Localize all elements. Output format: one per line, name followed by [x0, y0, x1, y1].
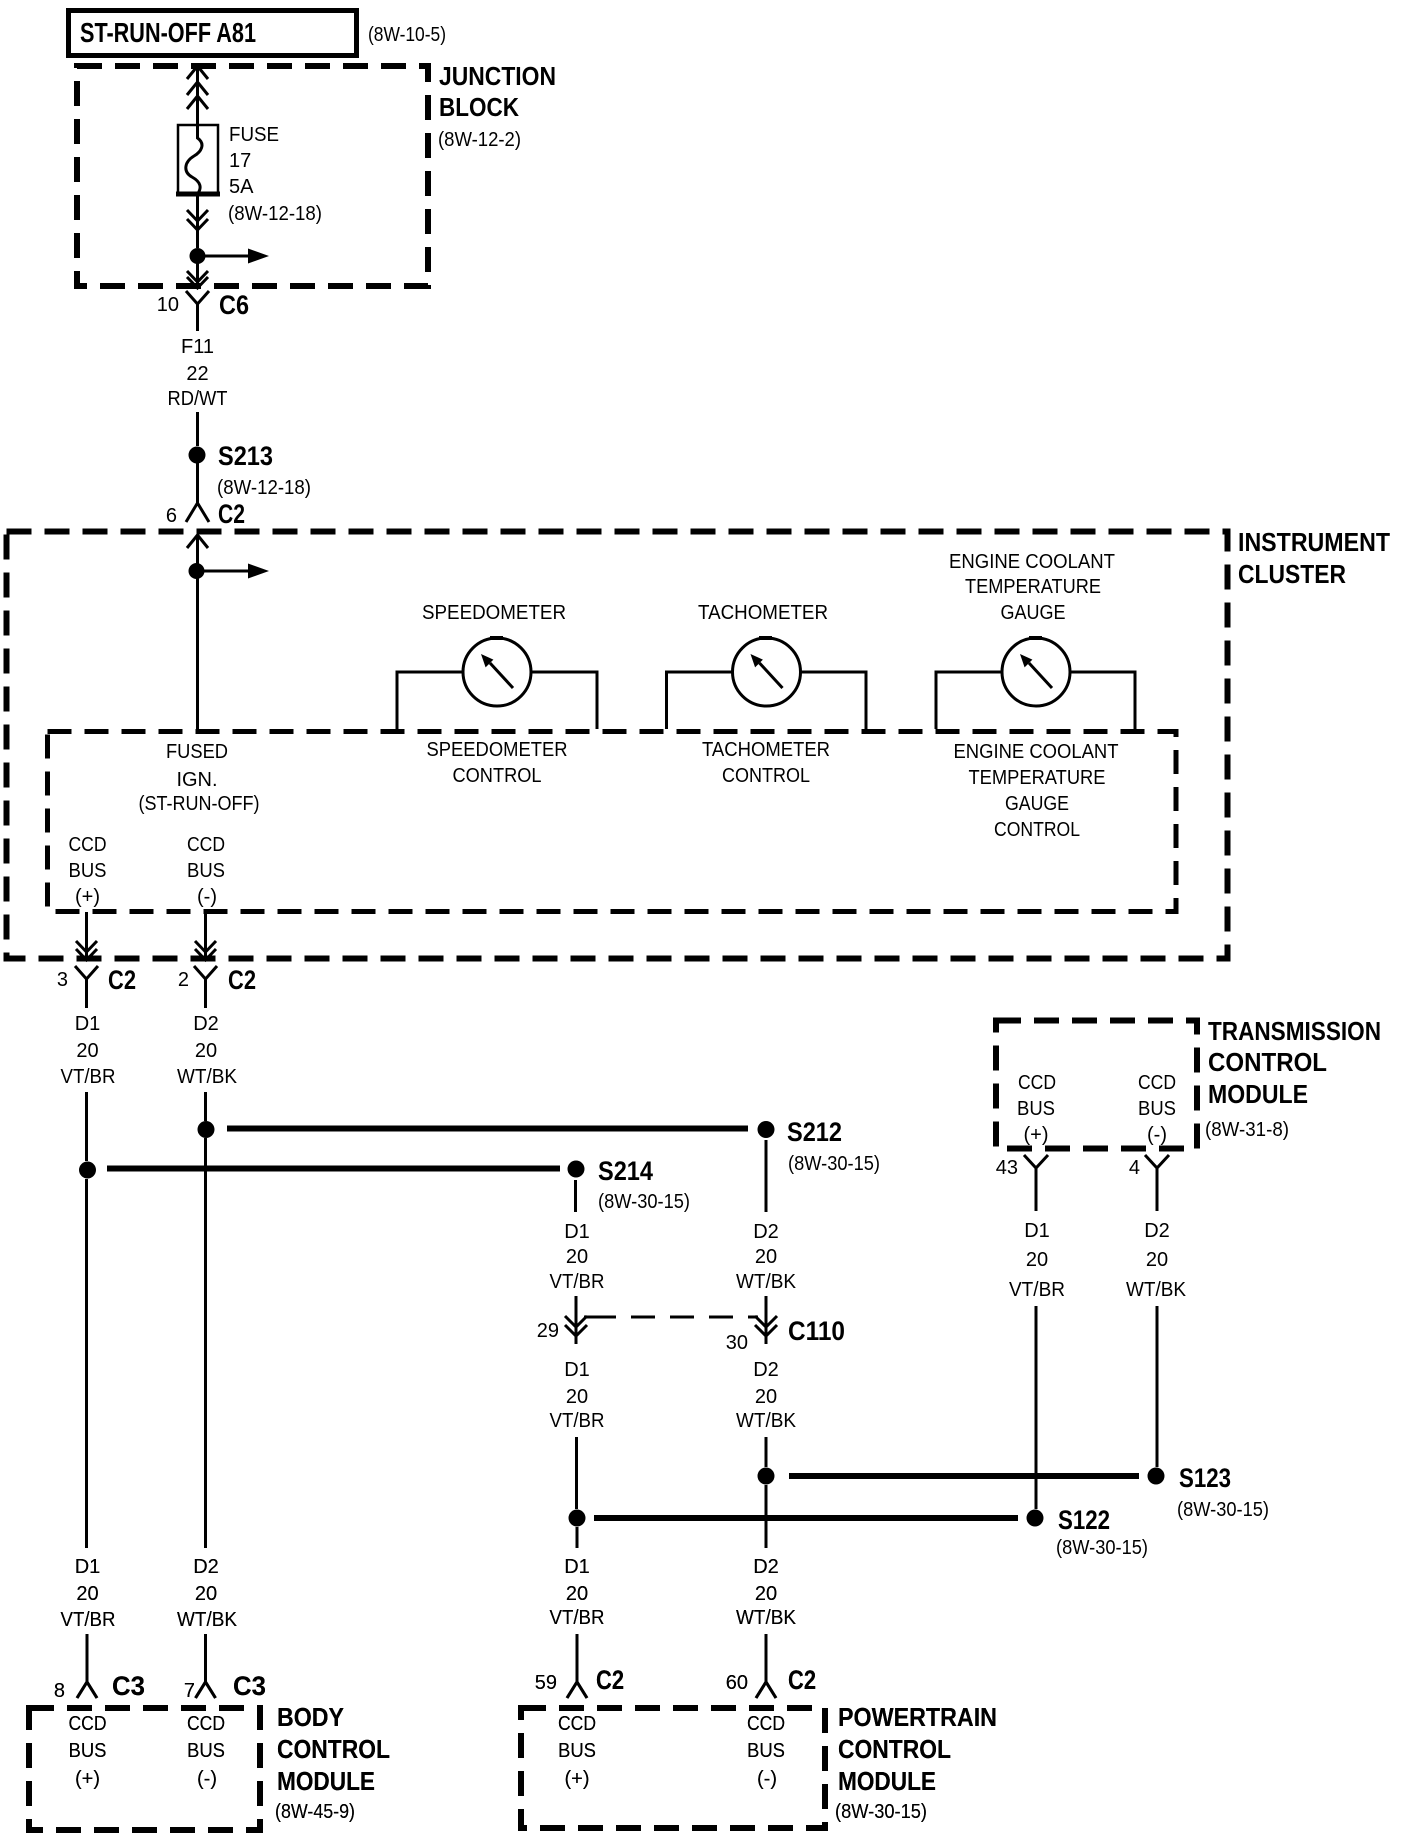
label CCD BUS (-) pcm: [747, 1713, 785, 1790]
svg-text:FUSE: FUSE: [229, 124, 279, 146]
svg-text:6: 6: [166, 505, 177, 527]
powertrain control module box: [521, 1702, 997, 1828]
svg-text:WT/BK: WT/BK: [736, 1271, 797, 1293]
svg-text:D2: D2: [753, 1556, 779, 1578]
svg-text:D2: D2: [193, 1013, 219, 1035]
instrument cluster box: [7, 527, 1391, 959]
svg-text:20: 20: [755, 1246, 777, 1268]
wire ccd- exit with down arrows: [195, 912, 216, 960]
svg-text:VT/BR: VT/BR: [61, 1066, 116, 1088]
svg-text:20: 20: [755, 1386, 777, 1408]
svg-text:BUS: BUS: [187, 860, 225, 882]
splice S214 branch line: [79, 1156, 690, 1213]
junction block box: [77, 61, 556, 286]
svg-text:C2: C2: [228, 965, 256, 995]
splice S213: [189, 441, 312, 499]
wire D2 20 WT/BK from pin 2: [177, 1013, 238, 1121]
svg-text:2: 2: [178, 969, 189, 991]
svg-text:C2: C2: [218, 499, 245, 529]
wire: feed from ST-RUN-OFF into junction block with up arrow: [187, 66, 208, 125]
svg-text:GAUGE: GAUGE: [1001, 602, 1066, 624]
label CCD BUS (-) tcm: [1138, 1072, 1176, 1146]
svg-text:CONTROL: CONTROL: [1208, 1047, 1327, 1077]
svg-text:(8W-45-9): (8W-45-9): [275, 1801, 355, 1823]
svg-text:FUSED: FUSED: [166, 741, 228, 763]
svg-text:(8W-12-2): (8W-12-2): [438, 129, 521, 151]
svg-text:CONTROL: CONTROL: [994, 819, 1080, 841]
svg-text:CCD: CCD: [747, 1713, 785, 1735]
connector C2 pin 60: [726, 1665, 816, 1698]
svg-text:C110: C110: [788, 1316, 845, 1346]
svg-text:TEMPERATURE: TEMPERATURE: [969, 767, 1106, 789]
connector C3 pin 7: [184, 1671, 266, 1702]
svg-text:CCD: CCD: [187, 1713, 225, 1735]
wire below pin2 down to body control module: [204, 1138, 207, 1548]
body control module box: [29, 1702, 390, 1830]
splice S212 branch line: [198, 1117, 881, 1175]
svg-text:CCD: CCD: [558, 1713, 596, 1735]
label CCD BUS (-) pcm: [747, 1713, 785, 1790]
label CCD BUS (+) bcm: [69, 1713, 107, 1790]
svg-text:20: 20: [566, 1583, 588, 1605]
svg-text:59: 59: [535, 1672, 557, 1694]
connector C2 pin 6 at cluster entry: [166, 463, 245, 529]
wire below pin3 down to body control module: [85, 1179, 88, 1548]
svg-text:8: 8: [54, 1680, 65, 1702]
svg-text:WT/BK: WT/BK: [1126, 1279, 1187, 1301]
svg-text:BUS: BUS: [69, 860, 107, 882]
wire D1 20 VT/BR into pcm pin 59: [550, 1527, 605, 1682]
label CCD BUS (-) bcm: [187, 1713, 225, 1790]
svg-text:BUS: BUS: [187, 1740, 225, 1762]
svg-text:JUNCTION: JUNCTION: [439, 61, 556, 91]
svg-text:20: 20: [566, 1386, 588, 1408]
label CCD BUS (-) cluster: [187, 834, 225, 908]
wire D1 20 VT/BR below C110: [550, 1359, 605, 1509]
svg-text:C3: C3: [233, 1671, 266, 1701]
label CCD BUS (+) tcm: [1017, 1072, 1056, 1146]
svg-text:IGN.: IGN.: [176, 769, 217, 791]
svg-text:S214: S214: [598, 1156, 653, 1186]
svg-text:(+): (+): [1024, 1124, 1049, 1146]
svg-text:5A: 5A: [229, 176, 254, 198]
label CCD BUS (+) pcm: [558, 1713, 596, 1790]
svg-text:CONTROL: CONTROL: [722, 765, 810, 787]
svg-text:30: 30: [726, 1332, 748, 1354]
svg-text:D2: D2: [753, 1221, 779, 1243]
svg-text:20: 20: [1146, 1249, 1168, 1271]
svg-text:MODULE: MODULE: [277, 1766, 375, 1796]
svg-text:CONTROL: CONTROL: [453, 765, 542, 787]
connector C2 pin 60: [726, 1665, 816, 1698]
svg-text:TACHOMETER: TACHOMETER: [698, 602, 828, 624]
wire D1 20 VT/BR into pcm pin 59: [550, 1527, 605, 1682]
svg-text:20: 20: [76, 1583, 98, 1605]
svg-text:BLOCK: BLOCK: [439, 92, 519, 122]
svg-text:INSTRUMENT: INSTRUMENT: [1238, 527, 1390, 557]
wire D1 20 VT/BR into bcm pin 8: [61, 1556, 116, 1682]
connector C110 pin 29: [537, 1316, 587, 1342]
svg-text:(ST-RUN-OFF): (ST-RUN-OFF): [139, 793, 260, 815]
connector C3 pin 8: [54, 1671, 145, 1702]
svg-text:20: 20: [755, 1583, 777, 1605]
svg-text:BUS: BUS: [747, 1740, 785, 1762]
svg-text:C2: C2: [108, 965, 136, 995]
svg-text:D2: D2: [193, 1556, 219, 1578]
connector arrow into cluster at pin 6: [187, 535, 208, 548]
svg-text:CCD: CCD: [1138, 1072, 1176, 1094]
transmission control module box: [996, 1016, 1381, 1149]
connector C3 pin 7: [184, 1671, 266, 1702]
svg-text:WT/BK: WT/BK: [736, 1410, 797, 1432]
svg-text:VT/BR: VT/BR: [1009, 1279, 1065, 1301]
label CCD BUS (+) cluster: [69, 834, 107, 908]
connector C2 pin 59: [535, 1665, 624, 1698]
wire D2 20 WT/BK below C110: [736, 1359, 797, 1467]
svg-text:ENGINE COOLANT: ENGINE COOLANT: [954, 741, 1119, 763]
label CCD BUS (+) pcm: [558, 1713, 596, 1790]
splice S123 branch line: [758, 1463, 1270, 1521]
svg-text:60: 60: [726, 1672, 748, 1694]
svg-text:(8W-10-5): (8W-10-5): [368, 24, 446, 46]
connector pin 4: [1129, 1155, 1169, 1211]
svg-text:BUS: BUS: [558, 1740, 596, 1762]
svg-text:C6: C6: [219, 290, 249, 320]
wire D1 20 VT/BR into bcm pin 8: [61, 1556, 116, 1682]
svg-text:SPEEDOMETER: SPEEDOMETER: [422, 602, 566, 624]
svg-text:S212: S212: [787, 1117, 842, 1147]
svg-text:BUS: BUS: [1017, 1098, 1055, 1120]
connector C110 pin 30: [726, 1316, 845, 1354]
svg-text:F11: F11: [181, 336, 214, 358]
svg-text:BUS: BUS: [69, 1740, 107, 1762]
engine coolant temperature gauge: [936, 551, 1135, 841]
svg-text:ENGINE COOLANT: ENGINE COOLANT: [949, 551, 1115, 573]
svg-text:CCD: CCD: [69, 834, 107, 856]
label FUSED IGN. (ST-RUN-OFF): [139, 741, 260, 815]
svg-text:VT/BR: VT/BR: [550, 1271, 605, 1293]
svg-text:7: 7: [184, 1680, 195, 1702]
svg-text:3: 3: [57, 969, 68, 991]
label CCD BUS (+) bcm: [69, 1713, 107, 1790]
fuse 17 5A: [176, 124, 322, 225]
connector C6 pin 10: [157, 290, 249, 331]
svg-text:22: 22: [186, 363, 208, 385]
power source box ST-RUN-OFF A81: [69, 11, 357, 56]
svg-text:D1: D1: [75, 1013, 101, 1035]
svg-text:WT/BK: WT/BK: [177, 1066, 238, 1088]
node: fused ignition splice with branch arrow: [189, 535, 270, 731]
svg-text:(8W-30-15): (8W-30-15): [1177, 1499, 1269, 1521]
svg-text:S122: S122: [1058, 1505, 1110, 1535]
speedometer gauge: [397, 602, 597, 787]
splice S122 branch line: [569, 1505, 1149, 1559]
connector C2 pin 59: [535, 1665, 624, 1698]
svg-text:(8W-30-15): (8W-30-15): [1056, 1537, 1148, 1559]
svg-text:CCD: CCD: [187, 834, 225, 856]
svg-text:VT/BR: VT/BR: [550, 1410, 605, 1432]
svg-text:(8W-31-8): (8W-31-8): [1205, 1119, 1289, 1141]
svg-text:17: 17: [229, 150, 251, 172]
svg-text:C2: C2: [788, 1665, 816, 1695]
svg-text:CONTROL: CONTROL: [838, 1734, 951, 1764]
svg-text:D1: D1: [564, 1359, 590, 1381]
svg-text:C3: C3: [112, 1671, 145, 1701]
svg-text:D1: D1: [75, 1556, 101, 1578]
body control module box: [29, 1702, 390, 1830]
wire D2 20 WT/BK into pcm pin 60: [736, 1485, 797, 1682]
svg-text:20: 20: [195, 1583, 217, 1605]
svg-text:20: 20: [195, 1040, 217, 1062]
svg-text:10: 10: [157, 294, 179, 316]
svg-text:(8W-30-15): (8W-30-15): [835, 1801, 927, 1823]
svg-text:20: 20: [566, 1246, 588, 1268]
svg-text:CLUSTER: CLUSTER: [1238, 559, 1346, 589]
dashed link of connector C110: [584, 1316, 758, 1319]
svg-text:(-): (-): [197, 1768, 217, 1790]
wire D2 20 WT/BK into bcm pin 7: [177, 1556, 238, 1682]
svg-text:(8W-12-18): (8W-12-18): [217, 477, 311, 499]
wire D2 20 WT/BK into pcm pin 60: [736, 1485, 797, 1682]
label CCD BUS (-) bcm: [187, 1713, 225, 1790]
svg-text:WT/BK: WT/BK: [177, 1609, 238, 1631]
wire below fuse with down chevrons: [187, 194, 208, 248]
tachometer gauge: [667, 602, 867, 787]
svg-text:VT/BR: VT/BR: [550, 1607, 605, 1629]
svg-text:D1: D1: [564, 1221, 590, 1243]
svg-text:RD/WT: RD/WT: [168, 388, 228, 410]
connector C2 pin 2: [178, 965, 256, 1008]
svg-text:GAUGE: GAUGE: [1005, 793, 1069, 815]
wire F11 22 RD/WT: [168, 336, 228, 446]
svg-text:C2: C2: [596, 1665, 624, 1695]
svg-text:(8W-30-15): (8W-30-15): [788, 1153, 880, 1175]
svg-text:WT/BK: WT/BK: [736, 1607, 797, 1629]
svg-text:SPEEDOMETER: SPEEDOMETER: [427, 739, 568, 761]
svg-text:BUS: BUS: [1138, 1098, 1176, 1120]
svg-text:D1: D1: [1024, 1220, 1050, 1242]
connector C3 pin 8: [54, 1671, 145, 1702]
svg-text:(8W-12-18): (8W-12-18): [228, 203, 322, 225]
wire ccd+ exit with down arrows: [76, 912, 97, 960]
svg-text:MODULE: MODULE: [838, 1766, 936, 1796]
svg-text:4: 4: [1129, 1157, 1140, 1179]
svg-text:(+): (+): [75, 886, 100, 908]
svg-text:(+): (+): [75, 1768, 100, 1790]
connector pin 43: [996, 1155, 1048, 1211]
wire D1 20 VT/BR from tcm: [1009, 1220, 1065, 1509]
svg-text:VT/BR: VT/BR: [61, 1609, 116, 1631]
svg-text:CCD: CCD: [69, 1713, 107, 1735]
svg-text:CONTROL: CONTROL: [277, 1734, 390, 1764]
node: splice in junction block with branch arrow: [190, 248, 270, 264]
svg-text:20: 20: [76, 1040, 98, 1062]
svg-text:ST-RUN-OFF A81: ST-RUN-OFF A81: [80, 17, 256, 48]
svg-text:MODULE: MODULE: [1208, 1079, 1308, 1109]
cluster internal control dashed box: [48, 732, 1177, 912]
svg-text:S213: S213: [218, 441, 273, 471]
svg-text:29: 29: [537, 1320, 559, 1342]
powertrain control module box: [521, 1702, 997, 1828]
svg-text:(8W-30-15): (8W-30-15): [598, 1191, 690, 1213]
svg-text:D2: D2: [1144, 1220, 1170, 1242]
svg-text:TACHOMETER: TACHOMETER: [702, 739, 830, 761]
svg-text:(+): (+): [565, 1768, 590, 1790]
svg-text:(-): (-): [757, 1768, 777, 1790]
svg-text:BODY: BODY: [277, 1702, 344, 1732]
wire D1 20 VT/BR from S214: [550, 1180, 605, 1344]
svg-text:43: 43: [996, 1157, 1018, 1179]
wire: junction block exit with down arrow: [187, 256, 208, 288]
svg-text:TEMPERATURE: TEMPERATURE: [965, 576, 1101, 598]
svg-text:(-): (-): [1147, 1124, 1167, 1146]
svg-text:D1: D1: [564, 1556, 590, 1578]
svg-text:POWERTRAIN: POWERTRAIN: [838, 1702, 997, 1732]
wire D1 20 VT/BR from pin 3: [61, 1013, 116, 1161]
svg-text:TRANSMISSION: TRANSMISSION: [1208, 1016, 1381, 1046]
svg-text:CCD: CCD: [1018, 1072, 1056, 1094]
svg-text:D2: D2: [753, 1359, 779, 1381]
svg-text:20: 20: [1026, 1249, 1048, 1271]
svg-text:(-): (-): [197, 886, 217, 908]
wire D2 20 WT/BK from S212: [736, 1140, 797, 1344]
wire D2 20 WT/BK into bcm pin 7: [177, 1556, 238, 1682]
wire D2 20 WT/BK from tcm: [1126, 1220, 1187, 1467]
svg-text:S123: S123: [1179, 1463, 1231, 1493]
connector C2 pin 3: [57, 965, 136, 1008]
